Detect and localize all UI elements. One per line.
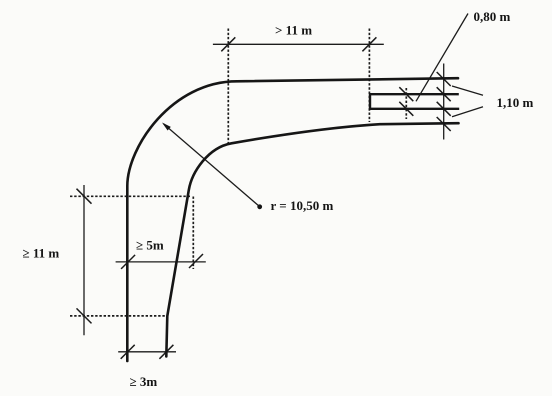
svg-text:1,10 m: 1,10 m bbox=[497, 95, 534, 110]
svg-text:0,80 m: 0,80 m bbox=[474, 9, 511, 24]
svg-text:≥ 5m: ≥ 5m bbox=[136, 238, 164, 253]
svg-text:r = 10,50 m: r = 10,50 m bbox=[271, 198, 334, 213]
svg-text:≥ 11 m: ≥ 11 m bbox=[23, 246, 60, 261]
svg-text:> 11 m: > 11 m bbox=[275, 23, 312, 38]
svg-text:≥ 3m: ≥ 3m bbox=[130, 374, 158, 389]
